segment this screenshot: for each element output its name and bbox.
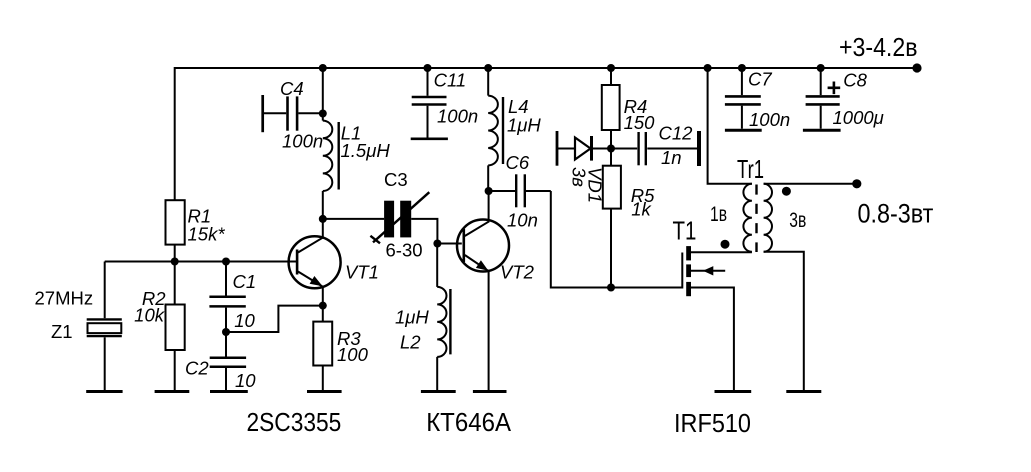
svg-text:C4: C4: [280, 78, 304, 99]
svg-text:IRF510: IRF510: [674, 410, 751, 438]
node L4-C6: [485, 187, 493, 195]
svg-text:1k: 1k: [631, 198, 652, 219]
ground bar under C11: [411, 138, 448, 141]
svg-text:100n: 100n: [282, 131, 323, 152]
svg-text:C2: C2: [185, 357, 209, 378]
wire Tr1 secondary to output: [764, 183, 857, 185]
ground bar under C8: [803, 129, 841, 132]
svg-text:100: 100: [337, 344, 369, 365]
ground under VT2: [473, 390, 507, 393]
wire VT2 collector: [488, 191, 490, 221]
svg-text:C12: C12: [659, 123, 694, 144]
svg-text:C11: C11: [434, 70, 467, 91]
wire VT1 collector: [322, 219, 324, 238]
transformer Tr1 core: [755, 185, 757, 253]
svg-text:10: 10: [235, 370, 256, 391]
transistor VT1: [289, 236, 341, 288]
inductor L1: [322, 68, 324, 121]
svg-text:0.8-3вт: 0.8-3вт: [858, 199, 934, 229]
svg-text:6-30: 6-30: [386, 240, 423, 261]
terminal +V end dot: [912, 63, 921, 72]
svg-text:1.5μH: 1.5μH: [341, 140, 391, 161]
resistor R1: [166, 200, 185, 244]
node C1-C2: [222, 328, 230, 336]
ground under L2: [421, 390, 456, 393]
transformer Tr1 primary: [743, 184, 752, 252]
crystal Z1: [104, 262, 106, 319]
node R4-R5-VD1-C12: [607, 145, 615, 153]
svg-text:VT2: VT2: [500, 262, 535, 283]
node rail-Tr1: [704, 64, 712, 72]
svg-text:1000μ: 1000μ: [833, 107, 884, 128]
node base-C1: [222, 258, 230, 266]
wire VT1 emitter: [322, 287, 324, 306]
node VT1 collector: [319, 215, 327, 223]
resistor R2: [174, 262, 176, 305]
svg-text:2SC3355: 2SC3355: [247, 409, 342, 437]
svg-text:T1: T1: [673, 218, 697, 246]
svg-text:15k*: 15k*: [188, 224, 226, 245]
wire C3 to VT2 base: [411, 219, 462, 244]
wire base line: [105, 261, 296, 263]
wire top power rail: [175, 68, 917, 200]
capacitor C6: [489, 190, 515, 192]
wire VT1 collector to C3: [323, 218, 384, 220]
svg-text:КТ646А: КТ646А: [426, 409, 512, 437]
inductor L2: [436, 244, 438, 287]
svg-text:C6: C6: [506, 152, 530, 173]
node C4-L1: [319, 110, 327, 118]
ground under Z1: [86, 390, 122, 393]
capacitor C12: [611, 148, 637, 150]
resistor R3: [322, 306, 324, 322]
svg-text:10: 10: [234, 310, 255, 331]
svg-text:Tr1: Tr1: [737, 156, 764, 184]
transistor VT2: [457, 220, 509, 272]
capacitor C7: [741, 68, 743, 95]
capacitor C11: [427, 68, 429, 96]
node C3-L2-VT2: [433, 240, 441, 248]
diode VD1: [556, 131, 559, 166]
resistor R4: [610, 68, 612, 85]
svg-text:3в: 3в: [789, 209, 806, 232]
capacitor C8: [820, 68, 822, 95]
svg-text:1μH: 1μH: [395, 307, 429, 328]
wire rail to Tr1 primary: [708, 68, 752, 184]
svg-text:27MHz: 27MHz: [35, 288, 94, 309]
svg-text:C1: C1: [233, 271, 257, 292]
node rail-L1: [319, 64, 327, 72]
node R1-R2: [171, 258, 179, 266]
svg-text:100n: 100n: [437, 105, 478, 126]
wire C6 to gate line: [551, 191, 683, 288]
ground under R2: [155, 390, 190, 393]
inductor L4: [487, 68, 489, 96]
svg-text:L2: L2: [400, 332, 421, 353]
svg-text:C8: C8: [843, 70, 867, 91]
wire Tr1 secondary bottom to ground: [764, 252, 804, 392]
resistor R5: [610, 149, 612, 166]
node rail-R4: [607, 64, 615, 72]
ground under Tr1 secondary: [786, 390, 821, 393]
ground under T1 source: [715, 390, 752, 393]
node rail-C8: [817, 64, 825, 72]
capacitor C1: [225, 262, 227, 296]
ground under R3: [307, 390, 342, 393]
wire VT2 emitter to ground: [488, 271, 490, 392]
Tr1 primary polarity dot: [721, 240, 730, 249]
svg-text:C3: C3: [384, 169, 408, 190]
Tr1 secondary polarity dot: [782, 187, 791, 196]
node VT1 emitter: [319, 302, 327, 310]
svg-text:3в: 3в: [569, 167, 590, 187]
svg-text:150: 150: [624, 112, 656, 133]
svg-text:+3-4.2в: +3-4.2в: [839, 34, 918, 62]
wire C1C2 node to VT1 emitter: [226, 306, 323, 332]
svg-text:10k: 10k: [134, 305, 166, 326]
node R5-gate: [607, 284, 615, 292]
svg-text:VT1: VT1: [345, 262, 379, 283]
wire R1 to base line: [174, 245, 176, 262]
terminal output dot: [852, 179, 861, 188]
variable capacitor C3: [384, 201, 394, 238]
MOSFET T1: [681, 253, 683, 289]
svg-text:1μH: 1μH: [507, 115, 541, 136]
svg-text:100n: 100n: [749, 109, 790, 130]
svg-text:C7: C7: [748, 69, 772, 90]
svg-text:1n: 1n: [661, 147, 682, 168]
svg-text:Z1: Z1: [51, 321, 73, 342]
capacitor C4: [261, 95, 264, 132]
node rail-L4: [484, 64, 492, 72]
ground under C2: [210, 390, 248, 393]
ground bar under C7: [725, 129, 762, 132]
transformer Tr1 secondary: [764, 184, 772, 252]
svg-text:1в: 1в: [710, 203, 727, 226]
node rail-C7: [738, 64, 746, 72]
node rail-C11: [424, 64, 432, 72]
capacitor C2: [210, 357, 246, 360]
svg-text:10n: 10n: [507, 210, 538, 231]
